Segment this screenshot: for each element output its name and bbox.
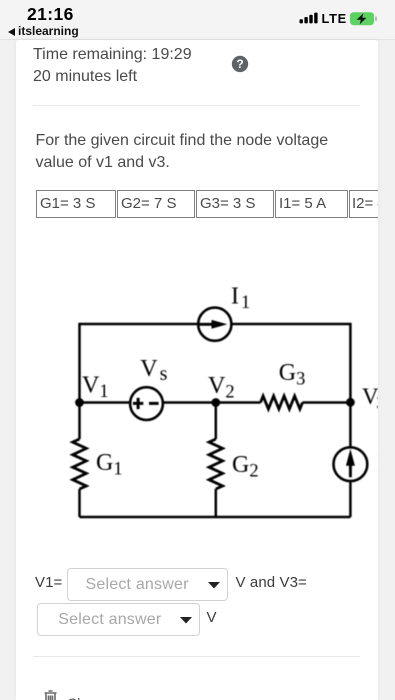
current source I2 [334,447,368,481]
question text [36,130,329,174]
signal bars [300,13,318,24]
svg-text:G1: G1 [96,450,123,480]
given values table [36,190,395,218]
node V3 [346,398,355,407]
node V2 [211,398,220,407]
wire: middle vertical below G2 to bottom rail [215,489,218,517]
svg-text:Vs: Vs [140,356,167,385]
svg-text:V3: V3 [362,384,378,413]
wire: middle vertical V2 down to G2 [215,403,218,440]
current source I1 [198,308,231,341]
svg-text:LTE: LTE [322,11,347,26]
wire: I1 across top and down right side to node V3 [232,324,351,402]
clear answer (clipped at bottom) [43,690,58,700]
node V1 [75,398,84,407]
wire: middle rail Vs to V2 [163,401,216,404]
voltage source Vs [130,387,163,420]
wire: right side below I2 to bottom-right corner [349,482,352,518]
divider 2 [33,656,360,657]
svg-text:I2: I2 [377,451,378,481]
wire: left side from V1 down to G1 [78,403,81,440]
svg-text:V1: V1 [82,373,109,403]
wire: middle rail V1 to Vs [80,401,131,404]
svg-text:G3: G3 [279,360,306,390]
time remaining block [33,44,192,88]
answer row 1: V1= [select] V and V3= [35,574,62,591]
CIRCUIT SCHEMATIC [16,240,378,570]
svg-text:?: ? [236,57,243,71]
answer row 2: [select] V [37,603,200,636]
resistor G2 [209,439,223,489]
wire: middle rail G3 to V3 [303,401,351,404]
wire: bottom rail [80,516,351,519]
svg-text:V2: V2 [208,373,235,403]
wire: middle rail V2 to G3 [216,401,261,404]
divider 1 [33,105,360,106]
svg-text:G2: G2 [232,452,259,482]
resistor G3 [261,396,303,409]
help icon [231,55,249,73]
status bar [0,0,395,40]
svg-text:I1: I1 [231,284,250,314]
battery charging icon [350,12,377,25]
resistor G1 [73,439,87,489]
wire: left side below G1 to bottom-left corner [78,489,81,517]
wire: right side V3 down to I2 [349,402,352,447]
wire: node V1 up left side and across top to I1 [80,324,199,403]
